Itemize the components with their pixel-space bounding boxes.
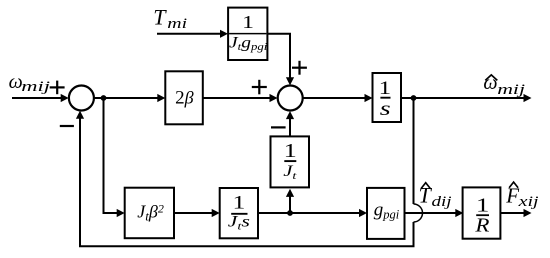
svg-text:mi: mi xyxy=(167,14,187,31)
svg-text:1: 1 xyxy=(232,192,245,213)
svg-text:mij: mij xyxy=(497,81,525,98)
wire S1 to block 2beta xyxy=(94,94,166,102)
svg-text:s: s xyxy=(380,98,391,120)
minus sign at S1 bottom input xyxy=(60,125,74,127)
wire 1/R output F-hat xyxy=(500,209,531,217)
wire 1/(Jt·s) to gpgi xyxy=(258,209,367,217)
wire omega_mij input xyxy=(12,94,69,102)
node N3 junction dot xyxy=(287,210,293,216)
wire hop over gpgi output xyxy=(414,204,423,222)
block B7 gpgi xyxy=(367,188,405,239)
wire N1 down to block Jt·beta2 xyxy=(104,98,125,217)
wire 2beta to S2 xyxy=(203,94,278,102)
summing junction S1 xyxy=(69,86,94,111)
label T-hat_dij xyxy=(419,183,452,210)
label omega_mij xyxy=(9,71,23,93)
wire gpgi to 1/R xyxy=(405,209,464,217)
wire 1/Jt up into S2 bottom xyxy=(286,111,294,136)
plus sign at S2 left input xyxy=(252,80,267,95)
block B5 1/(Jt·s) xyxy=(220,188,258,238)
block B6 1/Jt xyxy=(271,136,310,187)
wire N3 up into 1/Jt xyxy=(286,189,294,213)
node N2 junction dot xyxy=(411,95,417,101)
wire feedback from N2 down (upper segment) xyxy=(413,98,415,204)
svg-text:1: 1 xyxy=(379,77,391,98)
wire S2 to block 1/s xyxy=(303,94,373,102)
svg-text:dij: dij xyxy=(432,193,452,210)
wire feedback bottom run to S1 xyxy=(76,111,414,247)
svg-text:2β: 2β xyxy=(175,88,194,109)
label F-hat_xij xyxy=(505,182,538,209)
plus sign at S1 left input xyxy=(50,81,65,95)
block B8 1/R xyxy=(463,187,501,238)
label omega-hat_mij xyxy=(483,72,525,98)
svg-text:R: R xyxy=(474,214,489,236)
minus sign at S2 bottom input xyxy=(271,126,286,128)
node N1 junction dot xyxy=(101,95,107,101)
svg-text:mij: mij xyxy=(21,79,50,95)
block B2 2beta xyxy=(165,71,203,124)
block B3 1/s xyxy=(373,73,402,122)
svg-text:1: 1 xyxy=(284,140,297,162)
block B4 Jt·beta^2 xyxy=(125,188,174,239)
svg-text:T: T xyxy=(153,5,167,30)
plus sign at S2 top input xyxy=(292,61,307,75)
wire B1 output to summing junction S2 top xyxy=(267,34,294,86)
wire T_mi input xyxy=(157,30,228,38)
svg-text:1: 1 xyxy=(242,13,254,32)
svg-text:T: T xyxy=(419,183,433,208)
svg-text:xij: xij xyxy=(517,192,538,209)
summing junction S2 xyxy=(278,86,303,111)
label T_mi xyxy=(153,5,167,30)
wire 1/s to output omega-hat xyxy=(401,94,532,102)
wire Jt·beta2 to 1/(Jt·s) xyxy=(174,209,220,217)
block B1 1/(Jt·gpgi) xyxy=(228,8,267,60)
